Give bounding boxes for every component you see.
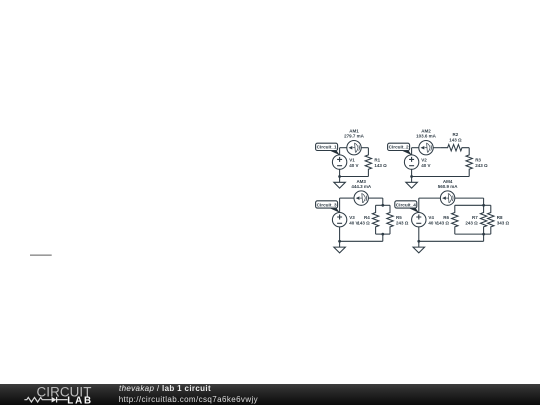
ammeter AM2 — [419, 141, 433, 155]
svg-text:V3: V3 — [349, 215, 355, 220]
svg-text:243 Ω: 243 Ω — [396, 221, 409, 226]
svg-text:Circuit_4: Circuit_4 — [396, 202, 416, 207]
wire — [412, 147, 419, 149]
resistor R6 — [452, 205, 458, 234]
wire — [483, 198, 485, 205]
label V4 — [428, 215, 437, 226]
svg-text:279.7 mA: 279.7 mA — [344, 134, 365, 139]
label R4 — [357, 215, 370, 226]
node flag Circuit_3 — [316, 201, 340, 213]
svg-text:243 Ω: 243 Ω — [465, 221, 478, 226]
label R2 — [449, 132, 462, 143]
svg-text:AM4: AM4 — [443, 179, 453, 184]
wire — [419, 240, 484, 242]
svg-text:R3: R3 — [475, 157, 481, 162]
svg-text:143 Ω: 143 Ω — [357, 221, 370, 226]
resistor R4 — [372, 205, 378, 234]
voltage source V2 — [404, 155, 418, 169]
wire — [368, 197, 382, 199]
svg-text:103.6 mA: 103.6 mA — [416, 134, 437, 139]
wire — [339, 198, 341, 212]
label AM1 — [344, 128, 365, 138]
svg-text:40 V: 40 V — [349, 163, 358, 168]
junction — [338, 240, 341, 243]
wire — [411, 169, 413, 176]
label V2 — [421, 157, 430, 168]
wire — [339, 227, 341, 241]
wire — [433, 147, 440, 149]
wire — [484, 204, 491, 206]
label R3 — [475, 157, 488, 168]
footer bar — [0, 384, 540, 405]
svg-text:LAB: LAB — [67, 395, 93, 405]
wire — [418, 227, 420, 241]
wire — [455, 197, 484, 199]
wire — [455, 233, 491, 235]
svg-text:444.3 mA: 444.3 mA — [351, 184, 372, 189]
logo resistor zigzag — [24, 397, 51, 402]
svg-text:R1: R1 — [374, 157, 380, 162]
voltage source V1 — [332, 155, 346, 169]
svg-text:AM2: AM2 — [421, 128, 431, 133]
junction — [482, 233, 485, 236]
svg-text:560.9 mA: 560.9 mA — [438, 184, 459, 189]
resistor R1 — [365, 148, 371, 177]
svg-text:143 Ω: 143 Ω — [449, 138, 462, 143]
junction — [482, 204, 485, 207]
wire — [340, 176, 369, 178]
svg-text:243 Ω: 243 Ω — [475, 163, 488, 168]
resistor R8 — [488, 205, 494, 234]
svg-text:343 Ω: 343 Ω — [497, 221, 510, 226]
junction — [417, 240, 420, 243]
wire — [483, 234, 485, 241]
label AM4 — [438, 179, 459, 189]
label AM3 — [351, 179, 372, 189]
svg-text:AM3: AM3 — [356, 179, 366, 184]
svg-text:R4: R4 — [364, 215, 370, 220]
node flag Circuit_4 — [395, 201, 419, 213]
junction — [338, 175, 341, 178]
svg-text:143 Ω: 143 Ω — [374, 163, 387, 168]
svg-text:R6: R6 — [443, 215, 449, 220]
ammeter AM3 — [354, 191, 368, 205]
ammeter AM1 — [347, 141, 361, 155]
svg-text:143 Ω: 143 Ω — [437, 221, 450, 226]
wire — [455, 204, 484, 206]
wire — [340, 147, 347, 149]
svg-text:R2: R2 — [453, 132, 459, 137]
junction — [381, 233, 384, 236]
svg-text:Circuit_1: Circuit_1 — [317, 145, 337, 150]
wire — [361, 147, 368, 149]
wire — [340, 197, 354, 199]
ammeter AM4 — [440, 191, 454, 205]
label V3 — [349, 215, 358, 226]
label V1 — [349, 157, 358, 168]
wire — [418, 198, 420, 212]
voltage source V4 — [412, 213, 426, 227]
wire — [376, 233, 390, 235]
svg-text:AM1: AM1 — [349, 128, 359, 133]
svg-text:V4: V4 — [428, 215, 434, 220]
label AM2 — [416, 128, 437, 138]
wire — [376, 204, 390, 206]
resistor R2 — [440, 145, 469, 151]
resistor R7 — [480, 205, 486, 234]
svg-text:Circuit_3: Circuit_3 — [317, 202, 337, 207]
label R7 — [465, 215, 478, 226]
resistor R3 — [466, 148, 472, 177]
node flag Circuit_1 — [316, 143, 340, 155]
svg-text:V2: V2 — [421, 157, 427, 162]
ground — [334, 177, 346, 189]
ground — [406, 177, 418, 189]
voltage source V3 — [332, 213, 346, 227]
svg-text:Circuit_2: Circuit_2 — [389, 145, 409, 150]
wire — [419, 197, 441, 199]
wire — [382, 234, 384, 241]
svg-text:R5: R5 — [396, 215, 402, 220]
annotation line — [30, 254, 52, 256]
wire — [339, 148, 341, 155]
logo diode — [52, 397, 57, 403]
ground — [413, 241, 425, 253]
svg-text:R8: R8 — [497, 215, 503, 220]
wire — [411, 148, 413, 155]
resistor R5 — [387, 205, 393, 234]
node flag Circuit_2 — [388, 143, 412, 155]
svg-text:40 V: 40 V — [421, 163, 430, 168]
label R6 — [437, 215, 450, 226]
junction — [381, 204, 384, 207]
junction — [410, 175, 413, 178]
wire — [340, 240, 383, 242]
svg-text:V1: V1 — [349, 157, 355, 162]
label R8 — [497, 215, 510, 226]
ground — [334, 241, 346, 253]
wire — [412, 176, 470, 178]
wire — [382, 198, 384, 205]
wire — [339, 169, 341, 176]
svg-text:R7: R7 — [472, 215, 478, 220]
label R5 — [396, 215, 409, 226]
label R1 — [374, 157, 387, 168]
